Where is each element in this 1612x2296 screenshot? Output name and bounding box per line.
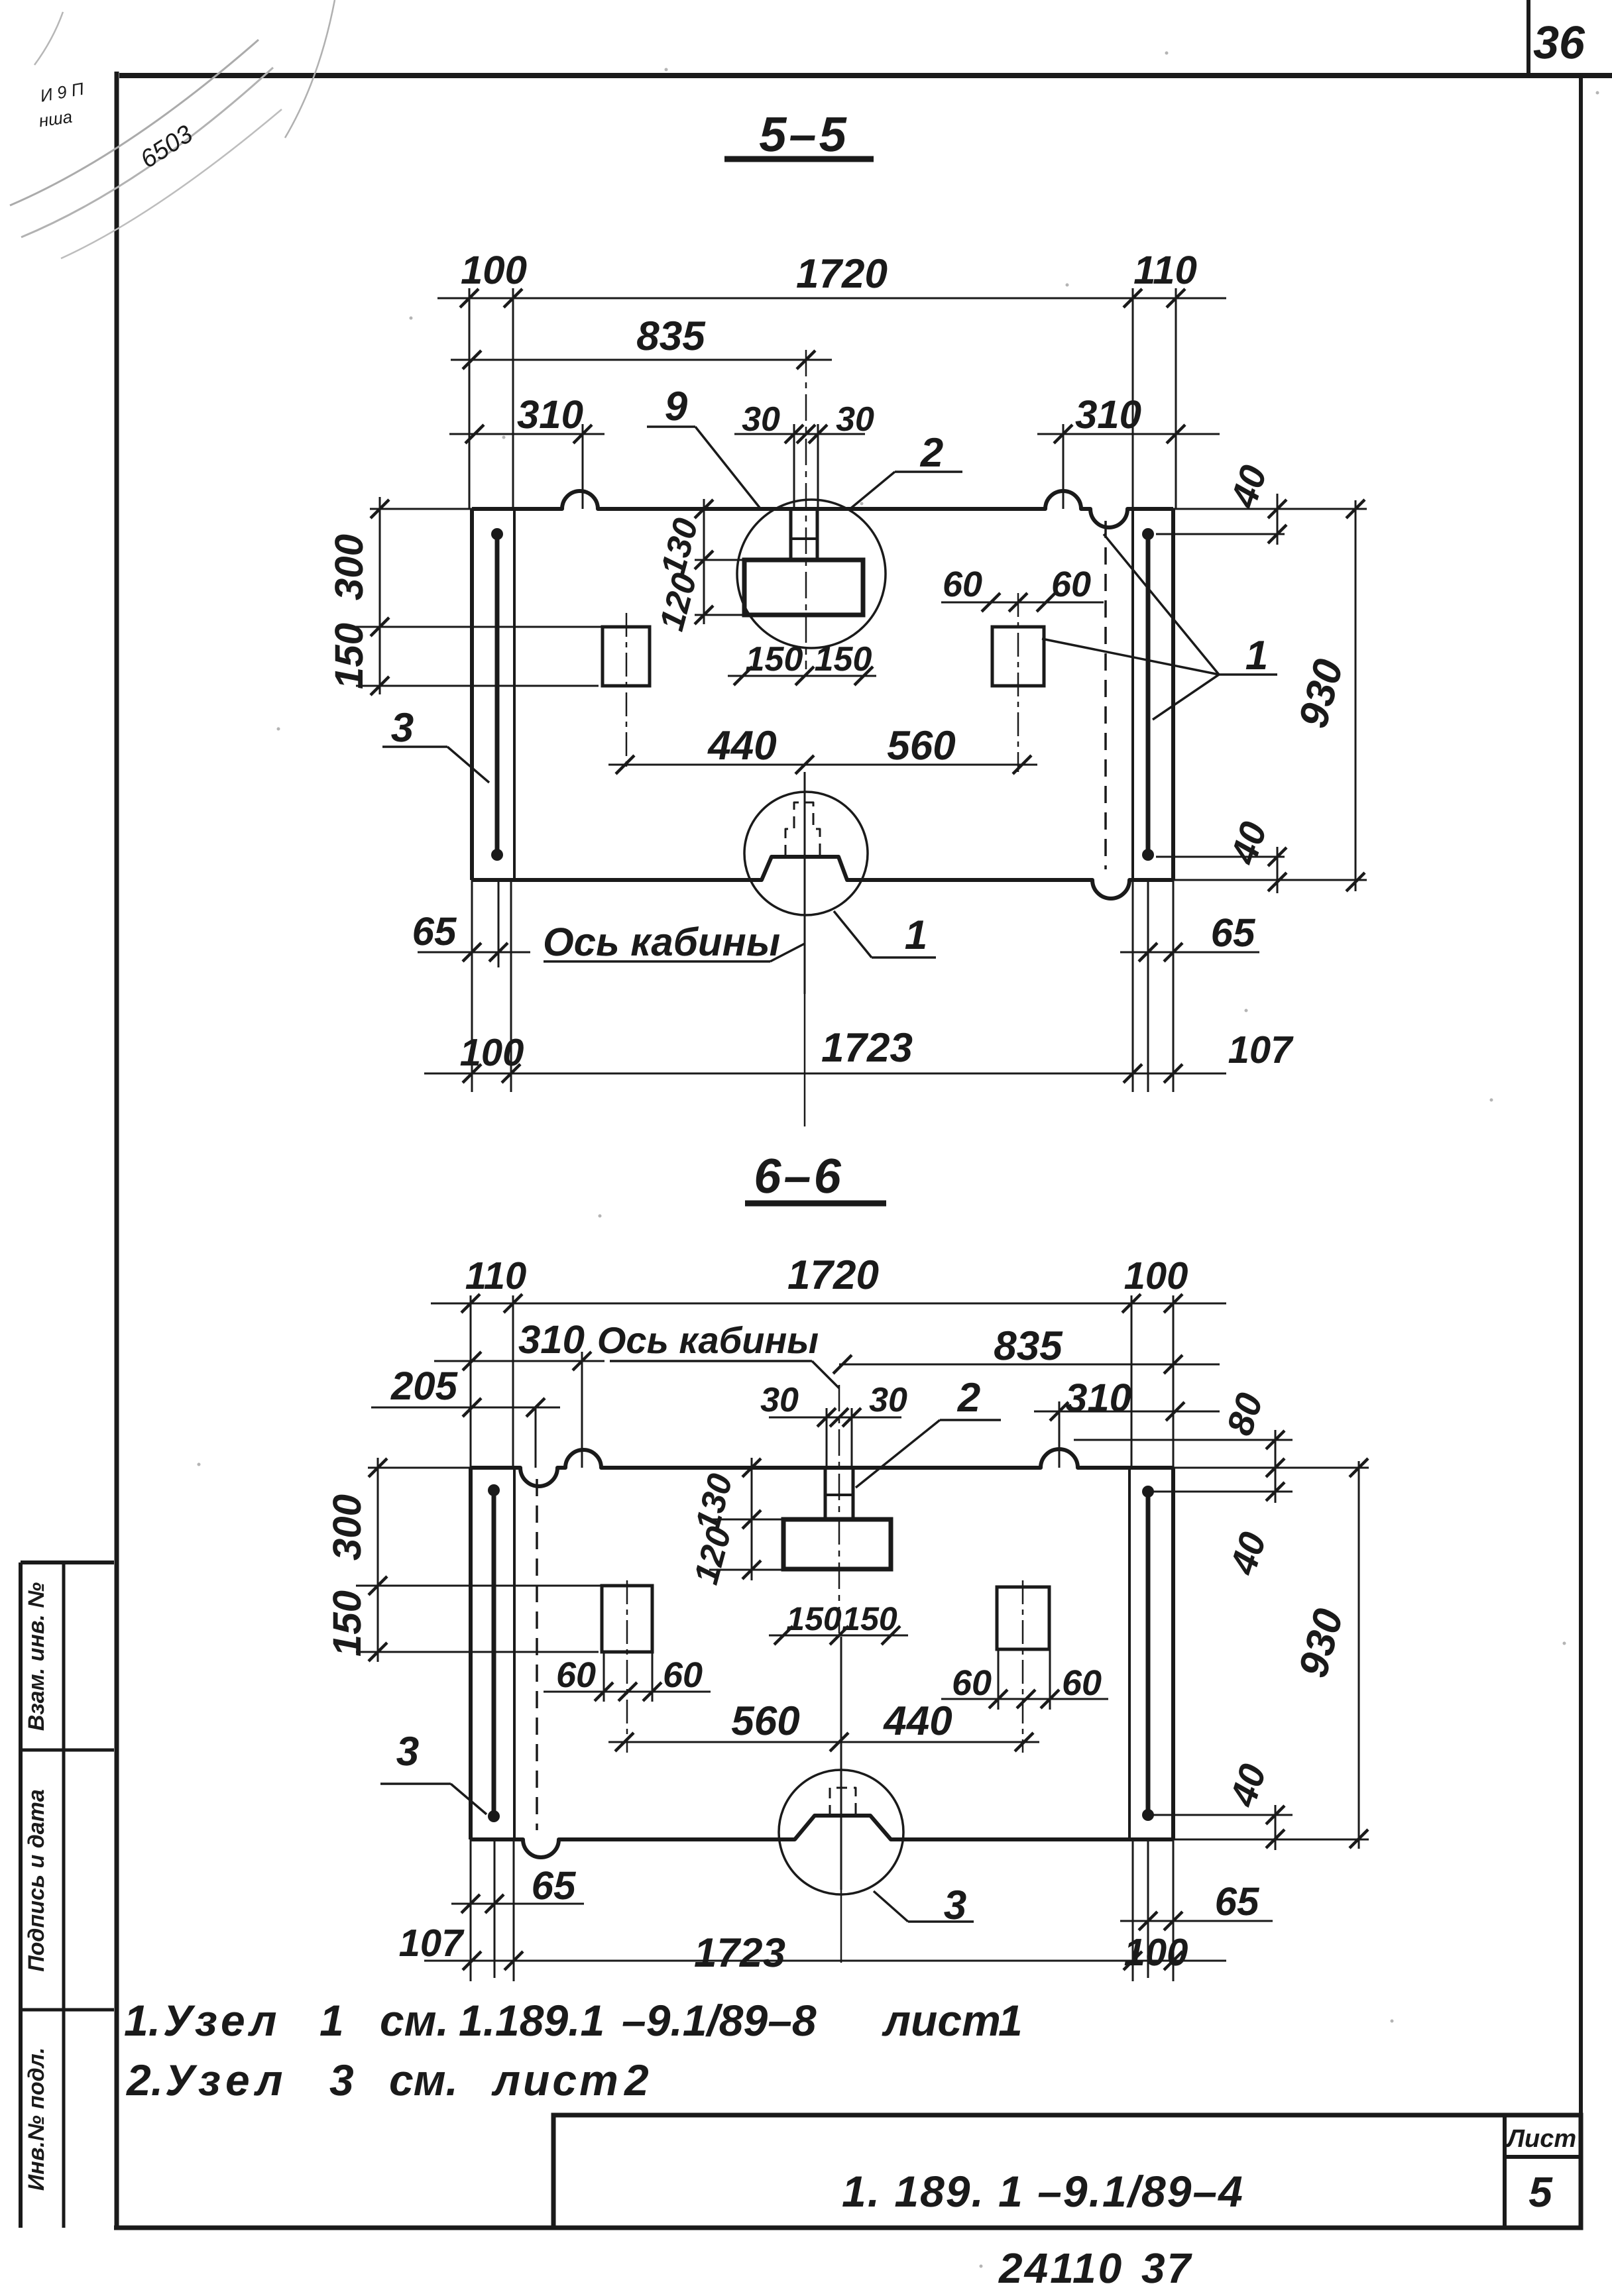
svg-text:2: 2 [920, 430, 943, 476]
svg-text:60: 60 [952, 1663, 992, 1703]
svg-text:65: 65 [532, 1863, 577, 1908]
svg-text:5: 5 [1528, 2168, 1553, 2216]
svg-text:65: 65 [1211, 910, 1256, 955]
svg-text:60: 60 [943, 565, 982, 604]
svg-text:150: 150 [786, 1600, 842, 1637]
svg-text:310: 310 [517, 392, 583, 437]
svg-text:150: 150 [746, 640, 803, 679]
svg-text:1: 1 [905, 912, 927, 958]
svg-text:1723: 1723 [821, 1025, 913, 1071]
svg-text:30: 30 [742, 400, 780, 439]
svg-text:30: 30 [869, 1381, 907, 1419]
svg-text:37: 37 [1141, 2244, 1193, 2292]
svg-text:110: 110 [465, 1254, 526, 1297]
svg-text:Ось кабины: Ось кабины [597, 1319, 819, 1361]
svg-text:Лист: Лист [1505, 2125, 1576, 2153]
svg-text:36: 36 [1533, 17, 1585, 68]
svg-text:лист: лист [491, 2055, 621, 2105]
svg-text:205: 205 [390, 1364, 459, 1408]
svg-text:60: 60 [1051, 565, 1091, 604]
svg-text:24110: 24110 [998, 2244, 1123, 2292]
svg-text:107: 107 [1228, 1028, 1295, 1071]
svg-text:1723: 1723 [694, 1930, 785, 1976]
svg-text:1: 1 [998, 1996, 1023, 2045]
svg-text:835: 835 [636, 313, 706, 359]
svg-text:Узел: Узел [163, 1996, 281, 2045]
svg-text:100: 100 [461, 248, 527, 292]
svg-text:1: 1 [319, 1996, 344, 2045]
svg-text:300: 300 [325, 1494, 369, 1560]
svg-text:2.: 2. [125, 2055, 163, 2105]
svg-text:300: 300 [327, 534, 371, 600]
svg-text:65: 65 [1215, 1879, 1260, 1924]
svg-text:60: 60 [556, 1655, 596, 1695]
svg-text:560: 560 [731, 1698, 799, 1744]
svg-text:150: 150 [815, 640, 872, 679]
svg-text:60: 60 [1062, 1663, 1102, 1703]
svg-text:100: 100 [1124, 1254, 1188, 1297]
svg-text:310: 310 [518, 1317, 585, 1362]
svg-text:лист: лист [882, 1996, 1001, 2045]
svg-text:Ось кабины: Ось кабины [543, 920, 780, 964]
svg-text:1.189.1: 1.189.1 [459, 1996, 604, 2045]
svg-text:Инв.№ подл.: Инв.№ подл. [24, 2048, 49, 2191]
svg-text:60: 60 [663, 1655, 703, 1695]
svg-text:65: 65 [412, 909, 457, 954]
svg-text:2: 2 [957, 1375, 980, 1421]
svg-text:440: 440 [882, 1698, 952, 1744]
svg-text:107: 107 [399, 1922, 465, 1965]
svg-text:см.: см. [389, 2055, 458, 2105]
svg-text:560: 560 [887, 723, 955, 769]
svg-text:310: 310 [1075, 392, 1141, 437]
svg-text:110: 110 [1133, 248, 1197, 292]
svg-text:3: 3 [329, 2055, 354, 2105]
svg-text:5–5: 5–5 [759, 107, 848, 162]
svg-text:310: 310 [1065, 1376, 1131, 1420]
svg-text:см.: см. [380, 1996, 449, 2045]
svg-text:–9.1/89–8: –9.1/89–8 [622, 1996, 817, 2045]
svg-text:Узел: Узел [165, 2055, 288, 2105]
svg-text:1720: 1720 [796, 251, 888, 297]
svg-text:1.: 1. [124, 1996, 160, 2045]
svg-text:1720: 1720 [787, 1252, 879, 1298]
svg-text:150: 150 [325, 1590, 369, 1657]
svg-text:6–6: 6–6 [754, 1148, 843, 1203]
svg-text:440: 440 [707, 723, 776, 769]
svg-text:Подпись и дата: Подпись и дата [24, 1789, 49, 1972]
svg-text:30: 30 [836, 400, 874, 439]
svg-text:3: 3 [396, 1729, 419, 1775]
svg-text:9: 9 [665, 384, 688, 429]
svg-text:150: 150 [842, 1600, 897, 1637]
svg-text:835: 835 [994, 1323, 1063, 1369]
svg-text:1. 189. 1 –9.1/89–4: 1. 189. 1 –9.1/89–4 [842, 2167, 1244, 2216]
svg-text:150: 150 [327, 623, 371, 689]
svg-text:2: 2 [623, 2055, 649, 2105]
svg-text:Взам. инв. №: Взам. инв. № [24, 1582, 49, 1731]
svg-text:100: 100 [460, 1031, 524, 1074]
svg-text:1: 1 [1245, 633, 1268, 679]
svg-text:3: 3 [391, 705, 414, 751]
svg-text:30: 30 [760, 1381, 799, 1419]
